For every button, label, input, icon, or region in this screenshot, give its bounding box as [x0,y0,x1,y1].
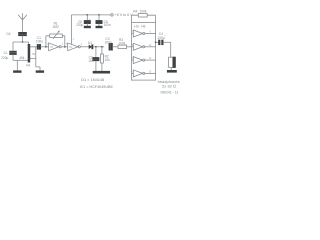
capacitor CL (tuning) [1,42,16,60]
node C2 [95,46,97,48]
ground (coil secondary) [36,71,43,72]
inverter H5 [131,57,156,64]
svg-text:IC1 = HCF4049UBE: IC1 = HCF4049UBE [80,85,114,89]
wire supply to H2 [70,15,72,45]
capacitor CA [6,32,26,42]
svg-text:100k: 100k [118,41,125,45]
wire to headphones [170,42,172,57]
svg-text:+5 V to 6 V: +5 V to 6 V [115,13,133,17]
capacitor C3 [105,37,118,50]
svg-text:090241 - 11: 090241 - 11 [161,91,179,95]
diode D1 [88,41,104,49]
svg-text:100n: 100n [36,39,43,43]
inductor L1 ferrite aerial coil (core bar) [28,45,30,63]
capacitor C4 [156,32,171,44]
svg-text:100k: 100k [140,9,147,13]
svg-text:40k: 40k [19,56,25,60]
svg-text:220µ: 220µ [76,23,83,27]
svg-text:CL: CL [4,51,8,55]
supply rail [71,14,109,16]
svg-text:D1: D1 [88,41,92,45]
antenna [18,13,27,32]
ground (C2 R2) [93,71,109,73]
resistor R3 [118,38,132,49]
capacitor C2 [88,47,99,72]
wire tank bottom [13,59,29,61]
supply terminal [109,13,133,17]
node input H1 [45,46,47,48]
svg-text:100n: 100n [105,41,112,45]
capacitor C5 [76,15,91,27]
node C6 [98,14,100,16]
potentiometer R1 feedback [46,22,65,47]
resistor R2 [101,47,111,72]
svg-text:100n: 100n [104,23,111,27]
resistor R4 [132,9,156,22]
node R2 [101,46,103,48]
svg-text:15n: 15n [88,59,94,63]
wire tank top [13,42,29,45]
node H1 out / feedback [64,46,66,48]
svg-text:10k: 10k [105,58,111,62]
coil secondary taps [30,47,40,71]
svg-text:2x 32 Ω: 2x 32 Ω [162,84,176,89]
ground (headphones) [167,71,176,73]
svg-text:2M2: 2M2 [53,25,59,29]
node C5 [86,14,88,16]
svg-text:R4: R4 [133,9,137,13]
inverter H4 [132,43,156,50]
ground (C5) [84,26,90,27]
IC1 buffer box H3-H6 [132,23,156,81]
wire H2 out [80,46,89,48]
capacitor C1 [36,36,49,49]
capacitor C6 [96,15,111,27]
headphones [158,57,180,88]
svg-text:H3 - H6: H3 - H6 [134,24,145,28]
ground (C6) [96,26,102,27]
svg-text:220p: 220p [1,56,8,60]
inverter H6 [131,70,156,77]
inverter H1 [47,43,64,51]
node output [155,41,157,43]
node top of tank [22,41,24,43]
inverter H2 [66,38,83,51]
inverter H3 [132,30,156,37]
svg-text:D1 = 1N4148: D1 = 1N4148 [81,77,104,82]
ground (tank left) [14,60,21,72]
wire H1 out [61,46,67,48]
